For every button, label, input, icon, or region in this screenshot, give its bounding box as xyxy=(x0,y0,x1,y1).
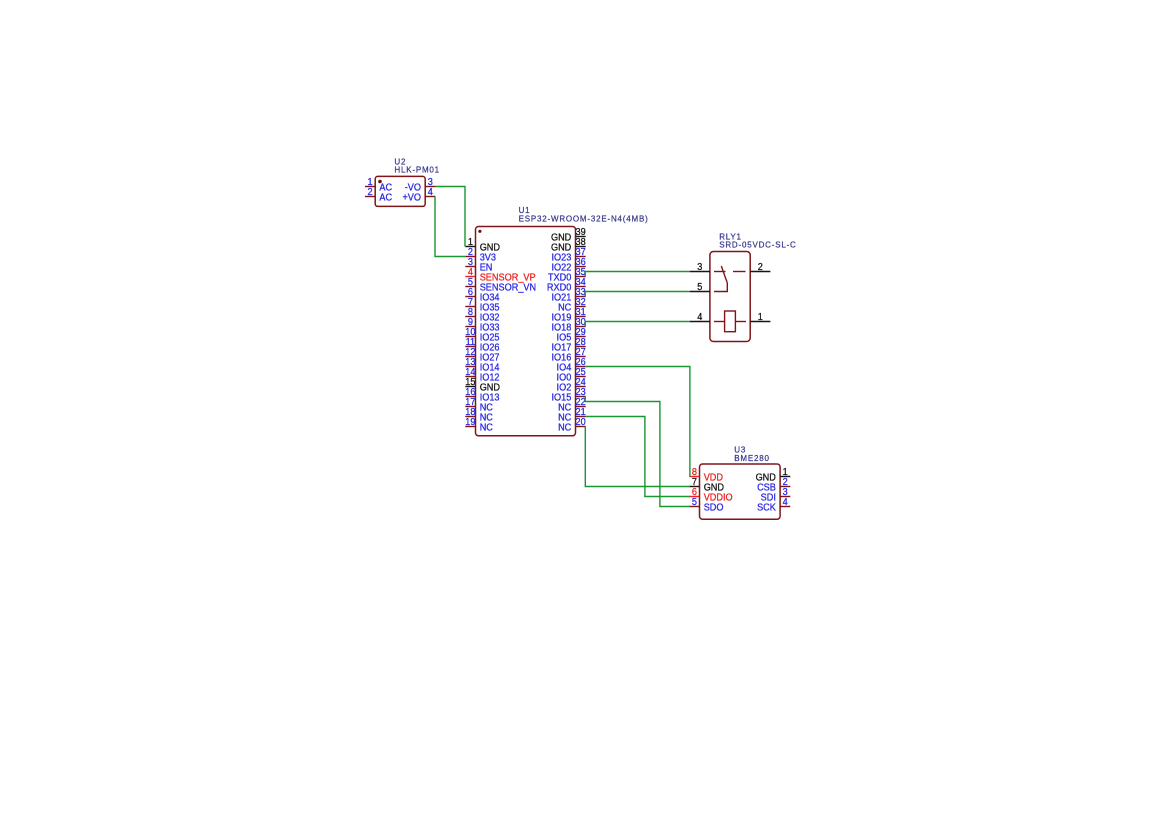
RLY1 switch common arm xyxy=(714,283,727,292)
U1 pin 16 (IO13) xyxy=(465,387,500,403)
U1 pin 23 (IO15) xyxy=(551,387,586,403)
wire U2 pin3 -VO to U1 pin1 GND xyxy=(435,187,465,247)
U1 pin 37 (IO23) xyxy=(551,247,585,263)
U1 pin-1 indicator dot xyxy=(478,230,481,233)
U1 pin 19 (NC) xyxy=(465,417,493,433)
U1 pin 18 (NC) xyxy=(465,407,493,423)
U3 value BME280 xyxy=(734,454,769,463)
wire U1 pin21 to U3 pin6 VDDIO xyxy=(586,417,690,497)
wire U1 pin35 TXD0 to RLY1 pin3 xyxy=(585,272,690,277)
U2 pin 2 (AC) xyxy=(365,187,392,203)
U2 pin 4 (+VO) xyxy=(402,187,435,203)
U1 pin 38 (GND) xyxy=(551,237,586,253)
U1 pin 20 (NC) xyxy=(558,417,586,433)
wire U1 pin23 IO15 to U3 pin5 SDO xyxy=(585,397,690,507)
svg-text:SCK: SCK xyxy=(757,503,776,514)
U2 pin 3 (-VO) xyxy=(405,177,436,193)
U1 pin 11 (IO26) xyxy=(465,337,500,353)
U3 pin 4 (SCK) xyxy=(757,497,790,513)
U3 pin 1 (GND) xyxy=(756,467,791,483)
svg-text:5: 5 xyxy=(697,282,703,293)
RLY1 coil rectangle xyxy=(725,311,736,332)
U1 pin 29 (IO5) xyxy=(557,327,587,343)
U1 pin 4 (SENSOR_VP) xyxy=(465,267,536,283)
U1 pin 5 (SENSOR_VN) xyxy=(465,277,536,293)
svg-text:3: 3 xyxy=(697,262,703,273)
U1 reference designator xyxy=(519,206,531,215)
svg-text:5: 5 xyxy=(692,497,698,508)
U3 reference designator xyxy=(734,446,746,455)
wire U1 pin33 IO21 to RLY1 pin5 xyxy=(585,292,690,297)
svg-text:AC: AC xyxy=(379,193,392,204)
U1 pin 15 (GND) xyxy=(465,377,500,393)
U1 pin 35 (TXD0) xyxy=(548,267,586,283)
U3 pin 8 (VDD) xyxy=(689,467,723,483)
U1 pin 14 (IO12) xyxy=(465,367,499,383)
U1 pin 24 (IO2) xyxy=(557,377,587,393)
U1 pin 22 (NC) xyxy=(558,397,586,413)
U1 pin 21 (NC) xyxy=(558,407,586,423)
U1 pin 31 (IO19) xyxy=(551,307,586,323)
svg-text:20: 20 xyxy=(576,417,587,428)
U3 pin 6 (VDDIO) xyxy=(689,487,733,503)
U1 pin 27 (IO16) xyxy=(551,347,585,363)
RLY1 pin 1 (coil) xyxy=(750,312,770,323)
RLY1 reference designator xyxy=(719,232,742,241)
U2 reference designator xyxy=(394,158,406,167)
U2 pin 1 (AC) xyxy=(365,177,392,193)
RLY1 value SRD-05VDC-SL-C xyxy=(719,240,796,249)
RLY1 switch NC contact segment xyxy=(714,271,726,273)
svg-text:ESP32-WROOM-32E-N4(4MB): ESP32-WROOM-32E-N4(4MB) xyxy=(519,215,649,224)
svg-text:SRD-05VDC-SL-C: SRD-05VDC-SL-C xyxy=(719,240,796,249)
U1 pin 2 (3V3) xyxy=(465,247,496,263)
U3 pin 2 (CSB) xyxy=(757,477,790,493)
U1 pin 39 (GND) xyxy=(551,227,586,243)
relay RLY1 body xyxy=(710,252,750,342)
U1 value ESP32-WROOM-32E-N4(4MB) xyxy=(519,215,649,224)
U1 pin 36 (IO22) xyxy=(551,257,586,273)
IC U3 BME280 body xyxy=(700,464,781,519)
RLY1 switch NO contact segment xyxy=(733,271,746,273)
U3 pin 5 (SDO) xyxy=(689,497,724,513)
U1 pin 30 (IO18) xyxy=(551,317,586,333)
wire U1 pin20 to U3 pin7 GND xyxy=(585,427,690,487)
wire U1 pin26 IO4 to U3 pin8 VDD xyxy=(586,367,690,477)
svg-text:1: 1 xyxy=(758,312,764,323)
U1 pin 13 (IO14) xyxy=(465,357,500,373)
RLY1 switch lever xyxy=(721,266,727,283)
wire U1 pin30 IO18 to RLY1 pin4 xyxy=(585,322,690,327)
U1 pin 28 (IO17) xyxy=(551,337,586,353)
wire U2 pin4 +VO to U1 pin2 3V3 xyxy=(435,197,465,257)
U2 pin-1 indicator dot xyxy=(378,180,382,184)
RLY1 pin 2 (NO contact) xyxy=(750,262,770,273)
U1 pin 8 (IO32) xyxy=(465,307,499,323)
U1 pin 34 (RXD0) xyxy=(547,277,586,293)
svg-text:NC: NC xyxy=(480,423,493,434)
RLY1 pin 4 (coil) xyxy=(690,312,710,323)
U1 pin 6 (IO34) xyxy=(465,287,500,303)
svg-text:2: 2 xyxy=(758,262,763,273)
svg-text:BME280: BME280 xyxy=(734,454,769,463)
RLY1 coil lead left xyxy=(714,321,725,323)
U1 pin 7 (IO35) xyxy=(465,297,500,313)
svg-text:SDO: SDO xyxy=(704,503,724,514)
svg-text:+VO: +VO xyxy=(402,193,421,204)
U2 value HLK-PM01 xyxy=(394,166,440,175)
svg-text:NC: NC xyxy=(558,423,571,434)
U1 pin 3 (EN) xyxy=(465,257,492,273)
RLY1 pin 5 (common) xyxy=(690,282,710,293)
svg-text:4: 4 xyxy=(783,497,789,508)
IC U1 ESP32-WROOM-32E body xyxy=(476,227,576,436)
U1 pin 25 (IO0) xyxy=(557,367,587,383)
U1 pin 9 (IO33) xyxy=(465,317,500,333)
IC U2 HLK-PM01 body xyxy=(375,176,425,206)
svg-text:4: 4 xyxy=(428,187,434,198)
U1 pin 26 (IO4) xyxy=(557,357,587,373)
U1 pin 32 (NC) xyxy=(558,297,586,313)
U1 pin 10 (IO25) xyxy=(465,327,500,343)
svg-text:HLK-PM01: HLK-PM01 xyxy=(394,166,440,175)
svg-text:4: 4 xyxy=(697,312,703,323)
U3 pin 3 (SDI) xyxy=(761,487,791,503)
U1 pin 1 (GND) xyxy=(465,237,500,253)
U1 pin 12 (IO27) xyxy=(465,347,499,363)
RLY1 coil lead right xyxy=(735,321,746,323)
svg-text:19: 19 xyxy=(465,417,476,428)
RLY1 pin 3 (NC contact) xyxy=(690,262,710,273)
U1 pin 33 (IO21) xyxy=(551,287,586,303)
svg-text:2: 2 xyxy=(368,187,373,198)
U3 pin 7 (GND) xyxy=(689,477,724,493)
U1 pin 17 (NC) xyxy=(465,397,493,413)
